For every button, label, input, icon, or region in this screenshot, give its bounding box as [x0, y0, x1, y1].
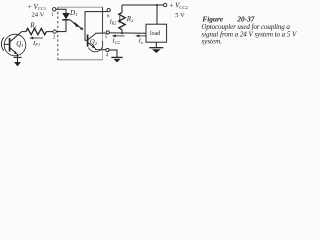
resistor R2 — [119, 5, 134, 33]
svg-text:1: 1 — [51, 13, 54, 18]
svg-text:R1: R1 — [29, 21, 37, 29]
terminal pin 5 — [106, 31, 109, 34]
svg-text:Io: Io — [138, 38, 144, 45]
current arrow IC2 — [111, 35, 124, 45]
output wire pin 5 to load — [109, 32, 146, 34]
svg-text:4: 4 — [106, 54, 109, 59]
svg-text:2: 2 — [53, 36, 56, 41]
wire (solid upper right edge segment) — [102, 7, 104, 33]
svg-text:5: 5 — [105, 35, 108, 40]
svg-text:+ VCC1: + VCC1 — [28, 3, 47, 11]
wire collector Q1 to R1 — [22, 31, 26, 33]
svg-text:IR2: IR2 — [109, 18, 117, 25]
light arrow 2 — [74, 23, 83, 31]
ground below pin 4 — [111, 57, 122, 62]
wire load to ground — [155, 42, 157, 47]
label +VCC2 5V — [169, 2, 188, 20]
terminal pin 4 — [106, 48, 109, 51]
light arrow 1 — [70, 20, 78, 27]
VCC2 rail wire — [122, 4, 163, 6]
svg-text:+ VCC2: + VCC2 — [169, 2, 188, 10]
svg-text:system.: system. — [201, 38, 222, 46]
label +VCC1 24V — [28, 3, 47, 19]
current arrow Io — [135, 35, 147, 45]
wire base of Q2 (pin 6 lead) — [85, 12, 107, 41]
current arrow IR2 — [109, 16, 122, 26]
resistor R1 — [26, 28, 46, 34]
junction node R2/output — [121, 32, 123, 34]
terminal pin 1 — [53, 8, 56, 11]
svg-text:Q2: Q2 — [90, 39, 98, 46]
svg-text:20-37: 20-37 — [236, 14, 254, 23]
LED D1 — [62, 9, 77, 20]
wire LED cathode down — [65, 20, 67, 31]
wire Q2 emitter to pin 4 — [95, 48, 106, 50]
terminal pin 2 — [53, 30, 56, 33]
svg-text:D1: D1 — [69, 9, 77, 17]
load box — [146, 24, 167, 42]
svg-text:R2: R2 — [126, 15, 134, 23]
optocoupler dashed box — [58, 7, 103, 60]
ground below load — [149, 48, 163, 53]
terminal pin 6 — [107, 9, 110, 12]
junction node load/VCC2 rail — [156, 4, 158, 6]
phototransistor Q2 — [88, 34, 103, 52]
wire Q2 collector to pin 5 — [95, 32, 106, 34]
wire VCC2 rail to load — [156, 5, 158, 24]
svg-text:Q1: Q1 — [16, 40, 23, 48]
svg-text:IC2: IC2 — [111, 38, 120, 45]
caption figure title — [201, 14, 298, 45]
current arrow IF1 — [29, 37, 43, 48]
wire pin2 to LED cathode — [56, 31, 66, 33]
svg-text:5 V: 5 V — [175, 12, 185, 19]
wire pin1 to LED anode — [56, 9, 66, 13]
svg-text:24 V: 24 V — [32, 12, 45, 19]
svg-text:IF1: IF1 — [32, 40, 40, 47]
wire base of Q1 — [4, 43, 10, 45]
svg-text:Figure: Figure — [202, 14, 223, 23]
ground (arrow style) below Q1 — [14, 54, 22, 67]
wire pin 4 to ground — [109, 50, 117, 57]
svg-text:load: load — [150, 31, 160, 37]
transistor Q1 — [4, 32, 26, 56]
wire R1 to pin 2 — [46, 31, 52, 33]
input signal source arc — [1, 37, 3, 51]
terminal VCC2 — [164, 3, 167, 6]
